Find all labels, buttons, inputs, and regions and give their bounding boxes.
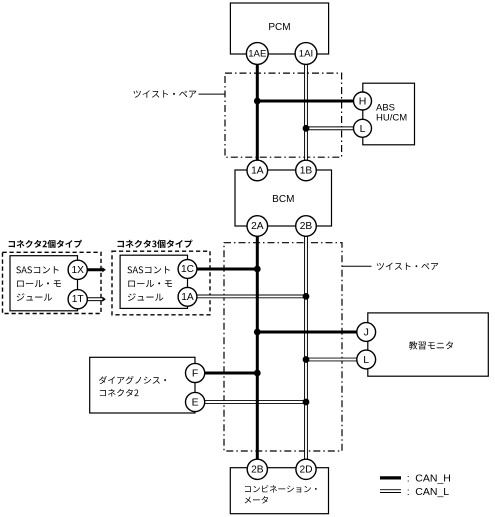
svg-text:1AE: 1AE bbox=[248, 49, 266, 60]
connector pin F (diagnosis) bbox=[186, 363, 205, 382]
junction CAN_H to diagnosis F bbox=[254, 370, 261, 377]
junction CAN_H to monitor J bbox=[254, 329, 261, 336]
svg-text:1C: 1C bbox=[181, 264, 194, 275]
svg-text:BCM: BCM bbox=[272, 194, 294, 205]
combination meter label line2 bbox=[245, 496, 268, 503]
svg-text:1AI: 1AI bbox=[299, 49, 313, 60]
svg-text:F: F bbox=[192, 368, 198, 380]
connector pin 1AE bbox=[246, 43, 268, 65]
BCM box bbox=[235, 170, 332, 226]
svg-text:E: E bbox=[192, 397, 199, 409]
connector pin 1A (BCM top) bbox=[247, 160, 268, 181]
connector pin L (monitor) bbox=[357, 350, 376, 369]
connector pin 1T bbox=[68, 290, 87, 309]
legend CAN_L sample line (double) bbox=[380, 489, 401, 493]
connector pin 2B (meter) bbox=[247, 459, 267, 479]
diagnosis connector label line1 bbox=[99, 376, 166, 384]
wire CAN_L PCM 1AI to BCM 1B vertical (double line) bbox=[304, 54, 308, 171]
svg-text:L: L bbox=[360, 123, 366, 135]
connector-3-type dashed box bbox=[112, 251, 210, 315]
arrowhead on 1X stub bbox=[102, 267, 105, 272]
SAS module text line1 (3conn) bbox=[127, 266, 169, 273]
svg-text:J: J bbox=[364, 327, 369, 339]
legend CAN_H sample line bbox=[380, 476, 401, 479]
svg-text:2A: 2A bbox=[251, 221, 264, 232]
PCM box bbox=[230, 3, 328, 54]
svg-text::: : bbox=[407, 486, 410, 498]
junction CAN_L to ABS L bbox=[303, 125, 310, 132]
junction CAN_H to ABS H bbox=[254, 98, 261, 105]
svg-text:2D: 2D bbox=[299, 464, 312, 475]
ABS HU/CM box bbox=[363, 83, 415, 145]
connector pin 2A (BCM bottom) bbox=[247, 216, 268, 237]
junction CAN_L to SAS 1A bbox=[303, 293, 310, 300]
svg-text:2B: 2B bbox=[300, 221, 313, 232]
svg-text:H: H bbox=[359, 96, 367, 108]
svg-text:1X: 1X bbox=[71, 265, 84, 276]
SAS module text line3 (3conn) bbox=[128, 293, 164, 301]
connector pin 2D (meter) bbox=[296, 459, 316, 479]
junction CAN_H to SAS 1C bbox=[254, 266, 261, 273]
connector pin H (ABS) bbox=[354, 92, 372, 110]
svg-text:CAN_H: CAN_H bbox=[415, 472, 451, 484]
wire CAN_H BCM 2A to meter 2B vertical (thick line) bbox=[256, 226, 259, 469]
training monitor box bbox=[368, 313, 489, 376]
svg-text:PCM: PCM bbox=[268, 22, 290, 33]
svg-text:HU/CM: HU/CM bbox=[376, 113, 407, 124]
label connector-3-type bbox=[117, 240, 192, 248]
connector pin 1C bbox=[178, 260, 197, 279]
label twisted pair (right) bbox=[377, 263, 439, 270]
twisted-pair dash-dot box (lower) bbox=[224, 243, 342, 451]
wire CAN_H 1X stub (thick line) bbox=[87, 268, 104, 271]
SAS module text line1 (2conn) bbox=[16, 266, 58, 273]
label twisted pair (upper) bbox=[134, 90, 197, 98]
combination meter label line1 bbox=[245, 485, 317, 492]
combination meter box bbox=[230, 468, 328, 514]
connector pin 1AI bbox=[295, 43, 317, 65]
junction CAN_L to diagnosis E bbox=[303, 399, 310, 406]
wire CAN_L ABS L branch (double line) bbox=[306, 126, 363, 130]
leader line to upper twisted-pair label bbox=[199, 93, 226, 95]
connector pin 1X bbox=[68, 260, 87, 279]
training monitor label bbox=[409, 341, 453, 349]
svg-text:L: L bbox=[363, 354, 369, 366]
SAS control module box (3-connector type) bbox=[120, 255, 187, 308]
connector pin L (ABS) bbox=[354, 119, 372, 137]
wire CAN_H ABS H branch (thick line) bbox=[257, 100, 362, 103]
wire CAN_L BCM 2B to meter 2D vertical (double line) bbox=[304, 226, 308, 469]
SAS control module box (2-connector type) bbox=[10, 256, 78, 311]
arrowhead on 1T stub bbox=[102, 297, 105, 302]
diagnosis connector 2 box bbox=[90, 357, 195, 413]
svg-text:1T: 1T bbox=[72, 294, 84, 305]
leader line to right twisted-pair label bbox=[342, 265, 372, 267]
wire CAN_L SAS 1A branch (double line) bbox=[197, 294, 307, 298]
wire CAN_H SAS 1C branch (thick line) bbox=[197, 268, 258, 271]
wire CAN_H diagnosis F branch (thick line) bbox=[195, 372, 257, 375]
connector pin 1B (BCM top) bbox=[296, 160, 317, 181]
svg-text:CAN_L: CAN_L bbox=[415, 486, 449, 498]
junction CAN_L to monitor L bbox=[303, 356, 310, 363]
connector pin J (monitor) bbox=[357, 323, 376, 342]
connector pin 1A (SAS) bbox=[178, 287, 197, 306]
connector pin 2B (BCM bottom) bbox=[296, 216, 317, 237]
svg-text:1B: 1B bbox=[300, 166, 313, 177]
svg-text:1A: 1A bbox=[251, 166, 264, 177]
svg-text::: : bbox=[407, 472, 410, 484]
wire CAN_H monitor J branch (thick line) bbox=[257, 331, 366, 334]
wire CAN_H PCM 1AE to BCM 1A vertical (thick line) bbox=[256, 54, 259, 171]
SAS module text line3 (2conn) bbox=[17, 293, 53, 301]
wire CAN_L diagnosis E branch (double line) bbox=[195, 400, 306, 404]
diagnosis connector label line2 bbox=[100, 389, 139, 397]
connector-2-type dashed box bbox=[3, 252, 102, 313]
svg-text:2B: 2B bbox=[251, 464, 264, 475]
twisted-pair dash-dot box (upper) bbox=[225, 73, 342, 157]
wire CAN_L monitor L branch (double line) bbox=[306, 358, 366, 362]
wire CAN_L 1T stub (double line) bbox=[87, 297, 104, 301]
label connector-2-type bbox=[9, 240, 82, 248]
connector pin E (diagnosis) bbox=[186, 392, 205, 411]
SAS module text line2 (3conn) bbox=[128, 280, 172, 287]
SAS module text line2 (2conn) bbox=[17, 280, 61, 287]
svg-text:1A: 1A bbox=[181, 292, 194, 303]
